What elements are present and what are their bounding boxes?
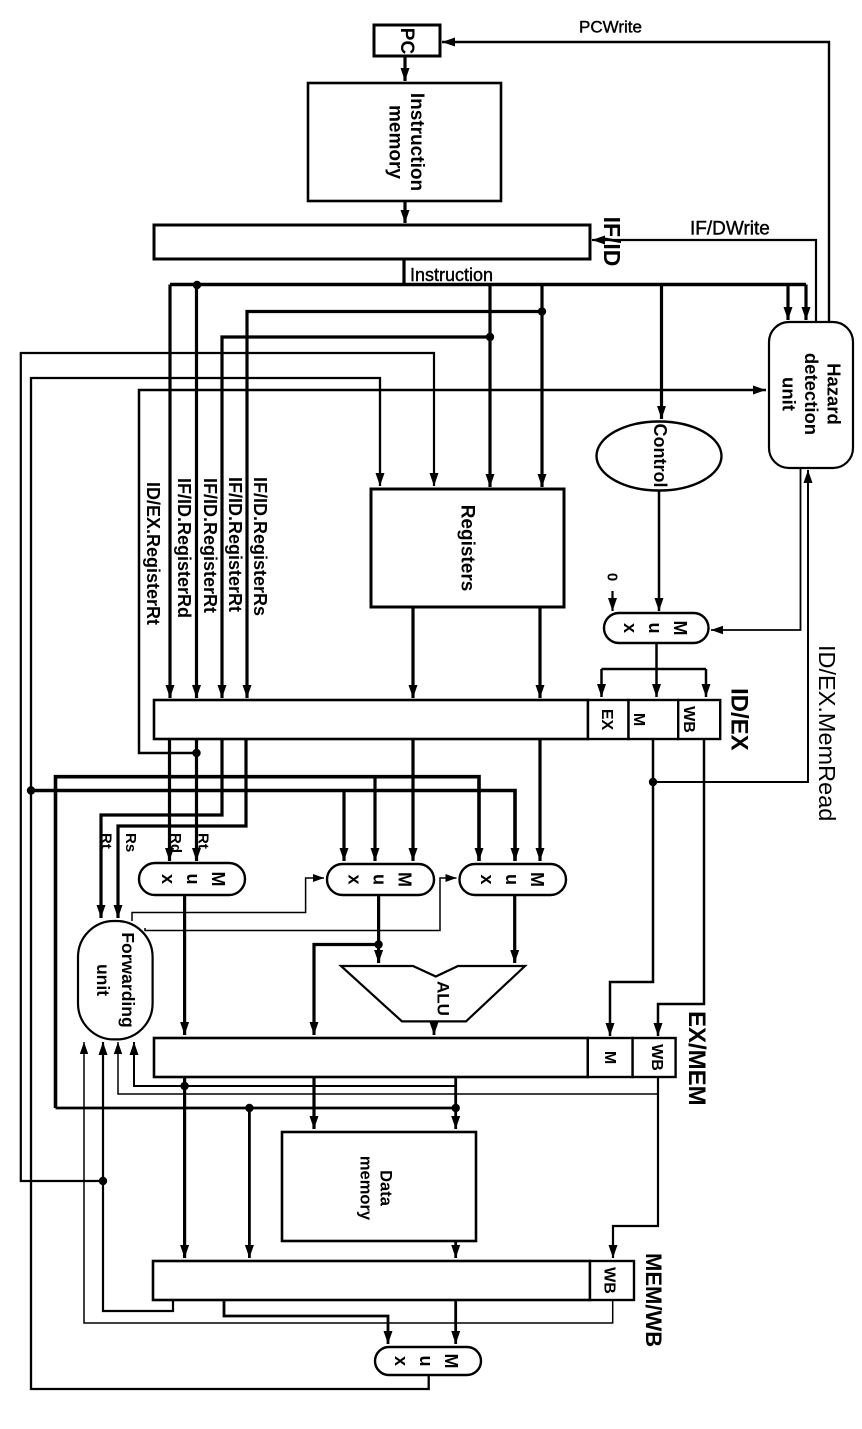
- wire IF/ID.RegisterRs branch: [243, 312, 543, 699]
- label MEM/WB: [641, 1253, 666, 1347]
- label IF/ID.RegisterRd: [174, 478, 194, 618]
- wire mux to ID/EX control boxes: [597, 643, 711, 697]
- svg-text:IF/ID.RegisterRt: IF/ID.RegisterRt: [200, 478, 220, 613]
- wire write register number: [21, 353, 439, 1181]
- wire EX/MEM Rd passthrough: [180, 1077, 189, 1258]
- label IF/ID.RegisterRt 2: [200, 478, 220, 613]
- wire MEM/WB Rd loop: [99, 1042, 174, 1311]
- svg-text:ID/EX: ID/EX: [726, 688, 753, 751]
- junction ID/EX Rt tap: [192, 749, 200, 757]
- wire ALU result down: [451, 1077, 460, 1129]
- wire MEM/WB forward line: [31, 791, 520, 862]
- svg-text:IF/ID.RegisterRt: IF/ID.RegisterRt: [225, 477, 245, 612]
- mux control zero: [604, 613, 709, 643]
- wire mux2 output to ALU: [374, 895, 383, 963]
- wire PCWrite: [442, 38, 829, 323]
- wire IF/DWrite: [592, 236, 816, 323]
- wire register read data 1: [409, 607, 418, 698]
- wire forward B tap to mux2: [340, 791, 349, 862]
- wire IF/ID.RegisterRt branch B: [218, 337, 491, 698]
- svg-text:Registers: Registers: [457, 505, 478, 592]
- wire forward A tap to mux2: [371, 777, 380, 861]
- label IF/ID: [599, 217, 625, 267]
- svg-text:IF/DWrite: IF/DWrite: [690, 219, 770, 240]
- label IF/DWrite: [690, 219, 770, 240]
- wire forward control A: [132, 874, 324, 921]
- junction ID/EX M output: [649, 778, 657, 786]
- label Rt small 2: [195, 833, 212, 849]
- wire ALU output: [430, 1021, 439, 1035]
- wire PC to instruction memory: [401, 56, 410, 81]
- wire ID/EX.RegisterRt to hazard: [139, 386, 766, 754]
- EX/MEM M box: [588, 1038, 633, 1077]
- junction instruction bus: [193, 281, 201, 289]
- MEM/WB WB box: [590, 1261, 634, 1300]
- label ID/EX: [726, 688, 753, 751]
- mux write back: [375, 1347, 481, 1375]
- wire EX/MEM WB out: [609, 1077, 659, 1258]
- wire instruction stub: [402, 259, 405, 286]
- wire data memory out: [451, 1241, 460, 1258]
- svg-text:Rt: Rt: [195, 833, 212, 849]
- register PC: [374, 25, 440, 56]
- EX/MEM WB box: [633, 1038, 676, 1077]
- wire hazard to mux select: [711, 468, 801, 634]
- wire read data to mux: [451, 1300, 460, 1344]
- label Rs small: [122, 833, 139, 852]
- wire mux3 output to ALU: [510, 895, 519, 963]
- wire read data 2 to mux3: [536, 739, 545, 861]
- svg-text:ID/EX.RegisterRt: ID/EX.RegisterRt: [143, 482, 163, 625]
- svg-text:PCWrite: PCWrite: [579, 18, 642, 37]
- svg-text:M: M: [630, 713, 647, 726]
- wire bus to hazard left: [784, 285, 793, 321]
- wire zero to mux: [608, 591, 617, 611]
- junction read register 1 tap: [538, 307, 546, 315]
- wire IF/ID.RegisterRd down: [166, 285, 175, 699]
- ID/EX WB box: [678, 700, 720, 739]
- svg-text:WB: WB: [648, 1044, 665, 1071]
- junction MEM/WB Rd tap: [99, 1177, 107, 1185]
- svg-text:Rd: Rd: [167, 833, 184, 853]
- wire ALU result forward line: [56, 1107, 456, 1110]
- forwarding unit: [78, 921, 153, 1039]
- wire store data to data memory: [310, 1077, 319, 1129]
- label Rd small: [167, 833, 184, 853]
- wire Rd to mux1: [165, 739, 174, 861]
- wire mux1 output: [180, 895, 189, 1035]
- junction EX/MEM Rd tap: [180, 1082, 188, 1090]
- wire ID/EX WB to EX/MEM WB: [654, 739, 705, 1036]
- mux2 forward B: [327, 864, 434, 895]
- pipeline register ID/EX: [154, 700, 588, 739]
- wire ALU result to MEM/WB: [245, 1108, 254, 1258]
- junction mux2 output: [374, 940, 382, 948]
- label PCWrite: [579, 18, 642, 37]
- label ID/EX.RegisterRt: [143, 482, 163, 625]
- label EX/MEM: [683, 1011, 710, 1106]
- ID/EX M box: [629, 700, 679, 739]
- wire IF/ID.RegisterRt down A: [192, 285, 201, 698]
- mux3 forward A: [460, 864, 567, 895]
- wire EX/MEM Rd to forwarding: [130, 1042, 456, 1086]
- instruction memory: [308, 83, 501, 201]
- label Instruction: [410, 265, 493, 285]
- label zero constant: [604, 573, 621, 581]
- label Rt small: [98, 833, 115, 849]
- svg-text:WB: WB: [601, 1267, 618, 1294]
- wire write back loop: [31, 378, 429, 1389]
- svg-text:ID/EX.MemRead: ID/EX.MemRead: [814, 645, 840, 821]
- junction forward line B start: [27, 786, 35, 794]
- wire mux2 output to EX/MEM: [310, 945, 379, 1036]
- pipeline register EX/MEM: [154, 1038, 588, 1077]
- wire control to mux: [655, 491, 664, 612]
- wire register read data 2: [536, 607, 545, 698]
- svg-text:EX: EX: [598, 709, 615, 731]
- svg-text:ALU: ALU: [434, 981, 453, 1016]
- junction read register 2 tap: [486, 333, 494, 341]
- registers file: [371, 489, 564, 607]
- ALU: [341, 966, 525, 1021]
- wire ID/EX.MemRead: [653, 470, 813, 782]
- svg-text:Rt: Rt: [98, 833, 115, 849]
- svg-text:EX/MEM: EX/MEM: [683, 1011, 710, 1106]
- control unit: [597, 422, 722, 491]
- junction ALU result line: [452, 1104, 460, 1112]
- wire Rt to forwarding: [97, 739, 223, 918]
- wire ALU result to mux: [224, 1300, 393, 1344]
- label IF/ID.RegisterRs: [250, 477, 270, 616]
- svg-text:IF/ID.RegisterRd: IF/ID.RegisterRd: [174, 478, 194, 618]
- wire read data 1 to mux2: [409, 739, 418, 861]
- svg-text:0: 0: [604, 573, 621, 581]
- svg-text:WB: WB: [680, 706, 697, 733]
- data memory: [282, 1132, 476, 1241]
- svg-text:M: M: [601, 1051, 618, 1064]
- label ID/EX.MemRead: [814, 645, 840, 821]
- hazard detection unit: [769, 322, 853, 468]
- wire EX/MEM forward line: [56, 777, 484, 1108]
- svg-text:Instructionmemory: Instructionmemory: [385, 93, 428, 191]
- svg-text:PC: PC: [396, 28, 417, 55]
- wire instruction bus: [170, 283, 806, 286]
- wire ID/EX M to EX/MEM M: [606, 739, 654, 1036]
- label IF/ID.RegisterRt 1: [225, 477, 245, 612]
- wire Rt to mux1: [192, 739, 201, 861]
- svg-text:Rs: Rs: [122, 833, 139, 852]
- wire Rs to forwarding: [114, 739, 247, 918]
- junction ALU result to MEM/WB: [245, 1104, 253, 1112]
- svg-text:Control: Control: [650, 424, 670, 488]
- wire bus to control: [657, 285, 666, 420]
- pipeline register IF/ID: [154, 225, 590, 259]
- wire EX/MEM RegWrite to forwarding: [114, 1042, 658, 1094]
- wire bus to read register 2: [486, 285, 495, 488]
- pipeline register MEM/WB: [153, 1261, 590, 1300]
- svg-text:IF/ID.RegisterRs: IF/ID.RegisterRs: [250, 477, 270, 616]
- wire bus to read register 1: [538, 285, 547, 488]
- svg-text:MEM/WB: MEM/WB: [641, 1253, 666, 1347]
- wire forward control B: [145, 874, 457, 931]
- mux1 RegDst: [139, 863, 245, 895]
- wire instruction memory to IF/ID: [401, 201, 410, 223]
- svg-text:Instruction: Instruction: [410, 265, 493, 285]
- ID/EX EX box: [588, 700, 629, 739]
- wire bus to hazard right: [802, 285, 811, 321]
- wire MEM/WB WB to forwarding: [80, 1042, 613, 1323]
